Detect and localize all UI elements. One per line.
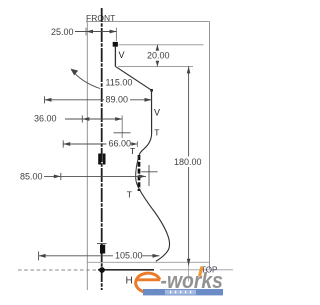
svg-text:T: T xyxy=(127,190,132,200)
svg-text:H: H xyxy=(126,276,133,287)
svg-text:V: V xyxy=(154,108,160,118)
svg-text:FRONT: FRONT xyxy=(86,13,115,23)
svg-text:V: V xyxy=(119,50,125,60)
svg-text:115.00: 115.00 xyxy=(106,78,133,88)
svg-text:180.00: 180.00 xyxy=(174,157,202,167)
svg-text:T: T xyxy=(130,146,135,156)
svg-text:105.00: 105.00 xyxy=(115,251,143,261)
svg-text:36.00: 36.00 xyxy=(34,114,57,124)
svg-text:25.00: 25.00 xyxy=(51,27,74,37)
svg-text:85.00: 85.00 xyxy=(20,172,43,182)
svg-text:89.00: 89.00 xyxy=(106,95,129,105)
svg-text:T: T xyxy=(154,128,159,138)
svg-text:66.00: 66.00 xyxy=(109,139,132,149)
svg-text:20.00: 20.00 xyxy=(147,51,170,61)
